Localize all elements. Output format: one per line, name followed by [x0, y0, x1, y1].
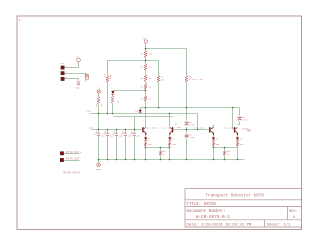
- resistor R4: [144, 84, 147, 90]
- wire pad2-2: [64, 160, 80, 162]
- svg-text:.1uF: .1uF: [189, 136, 195, 139]
- wire vcc2 stem: [78, 62, 80, 68]
- wire jog to Q4 collector: [238, 124, 240, 126]
- wire B horizontal: [90, 113, 198, 115]
- wire Q1 diode-R stub: [145, 141, 147, 142]
- wire B corner down to Q3 base: [197, 114, 199, 130]
- junction at (125.3,159.4): [125, 159, 127, 161]
- junction at (232.8,107.0): [232, 107, 234, 109]
- resistor R3: [144, 75, 147, 82]
- wire gnd symbol stem: [98, 160, 100, 163]
- wire below C9: [239, 122, 241, 125]
- resistor R5: [144, 96, 147, 102]
- junction at (116.4,129.8): [116, 129, 118, 131]
- resistor R1: [144, 51, 147, 58]
- wire C horizontal: [114, 116, 173, 118]
- wire Q3 emitter stub: [213, 136, 215, 138]
- wire vertical x=232.8: [232, 108, 234, 130]
- wire base bus: [92, 129, 143, 131]
- resistor R2: [144, 64, 147, 71]
- junction at (186.7,159.4): [186, 159, 188, 161]
- junction at (160.2,159.4): [160, 159, 162, 161]
- wire pad1-2: [65, 73, 87, 75]
- wire dropper x=224.8 bottom: [224, 156, 226, 160]
- wire cap bank drop 3 top: [116, 130, 118, 134]
- junction at (98.6,129.8): [98, 129, 100, 131]
- junction at (112.9,113.4): [112, 113, 114, 115]
- wire x=107.4 lower: [107, 83, 109, 114]
- junction at (107.4,113.4): [107, 113, 109, 115]
- svg-text:Sheet: 1/1: Sheet: 1/1: [267, 223, 292, 228]
- svg-text:OUT: OUT: [247, 130, 252, 133]
- wire Q3 collector stub: [213, 125, 215, 128]
- wire bias tap y=60.3: [108, 60, 159, 62]
- junction at (186.7,129.8): [186, 129, 188, 131]
- wire chain stub 4: [145, 82, 147, 84]
- resistor R9: [97, 97, 100, 105]
- supply symbol P+ top of divider: [144, 40, 147, 43]
- wire box stub: [86, 74, 88, 75]
- svg-text:Date: 2/28/2016 10:29:22 PM: Date: 2/28/2016 10:29:22 PM: [187, 223, 252, 228]
- wire cap bank drop 5 bottom: [134, 136, 136, 160]
- svg-text:W-EB-G079-B-1: W-EB-G079-B-1: [196, 216, 230, 220]
- junction at (116.4,159.4): [116, 159, 118, 161]
- wire cap bank drop 2 top: [107, 130, 109, 134]
- wire gnd2 stem: [78, 79, 80, 81]
- wire vertical x=186.7 lower: [186, 139, 188, 160]
- diode D4 emitter of Q2: [168, 137, 171, 140]
- wire chain to Q1 collector: [145, 102, 147, 128]
- svg-text:VCC: VCC: [143, 37, 148, 40]
- wire x=112.9 stub: [112, 91, 114, 92]
- pad JP1 pin 3: [61, 77, 64, 80]
- svg-text:TITLE: G079X: TITLE: G079X: [187, 203, 217, 207]
- wire cap bank drop 4 bottom: [125, 136, 127, 160]
- capacitor C2: [97, 133, 100, 135]
- svg-text:Q2 2N3904: Q2 2N3904: [163, 126, 175, 129]
- wire chain stub 3: [145, 71, 147, 75]
- svg-text:RCVR_OUT-: RCVR_OUT-: [66, 158, 82, 161]
- input source symbol: [97, 90, 101, 94]
- wire x=107.4 upper: [107, 61, 109, 76]
- resistor R6: [106, 76, 109, 83]
- wire gnd bus: [99, 159, 245, 161]
- svg-text:BIAS: BIAS: [86, 110, 92, 113]
- wire Q3 emitter to rail: [213, 147, 215, 148]
- supply symbol P+ at input connector: [77, 58, 81, 62]
- svg-text:10K: 10K: [148, 53, 153, 56]
- junction at (145.7,159.4): [145, 159, 147, 161]
- ground symbol (pads): [77, 81, 80, 85]
- resistor R8: [185, 76, 188, 83]
- svg-text:10u: 10u: [137, 134, 140, 137]
- svg-text:220K: 220K: [109, 73, 112, 79]
- resistor R11 emitter of Q1: [144, 142, 146, 147]
- junction at (145.7,147.9): [145, 147, 147, 149]
- wire cap bank drop 5 from C: [134, 117, 136, 134]
- junction at (107.5,129.8): [107, 129, 109, 131]
- wire pad2-1: [64, 153, 80, 155]
- junction at (98.6,113.4): [98, 113, 100, 115]
- wire dropper x=160.2 bottom: [160, 156, 162, 160]
- junction at (169.9,159.4): [169, 159, 171, 161]
- wire x=112.9 mid: [112, 95, 114, 96]
- wire Q1 chain to gnd: [145, 148, 147, 160]
- svg-text:C2: C2: [94, 132, 96, 135]
- transistor Q2: [172, 127, 173, 132]
- wire cap bank drop 2 bottom: [107, 136, 109, 160]
- junction at (145.7,90.0): [145, 90, 147, 92]
- svg-text:.1uF: .1uF: [242, 119, 248, 122]
- svg-text:JP1: JP1: [60, 62, 65, 65]
- wire Q2-Q3 base: [174, 129, 210, 131]
- capacitor C3: [106, 133, 109, 135]
- wire Q4 chain to gnd: [237, 148, 239, 160]
- wire E1: [146, 147, 170, 149]
- wire Q2 diode-R stub: [169, 141, 171, 142]
- resistor R10: [111, 96, 114, 104]
- svg-text:REV:: REV:: [289, 210, 298, 214]
- junction at (237.4,159.4): [237, 159, 239, 161]
- junction at (158.5,107.0): [158, 107, 160, 109]
- wire Q4 emitter stub: [237, 136, 239, 138]
- junction at (134.2,129.8): [134, 129, 136, 131]
- wire chain stub 2: [145, 58, 147, 64]
- junction at (213.4,159.4): [213, 159, 215, 161]
- wire pad1-3: [65, 78, 79, 80]
- resistor R12 emitter of Q2: [168, 142, 170, 147]
- wire dropper x=160.2 top: [160, 148, 162, 151]
- svg-text:RCVR XDCR: RCVR XDCR: [64, 172, 80, 175]
- resistor R16: [223, 151, 225, 156]
- capacitor C7: [185, 123, 189, 125]
- wire x=158.5 lower: [158, 83, 160, 108]
- junction at (169.9,147.9): [169, 147, 171, 149]
- wire Q2 emitter to rail: [169, 147, 171, 148]
- junction at (186.7,107.0): [186, 107, 188, 109]
- frame border: [17, 16, 302, 230]
- junction at (224.8,147.9): [224, 147, 226, 149]
- wire Q4 diode-R stub: [237, 141, 239, 142]
- junction at (107.5,159.4): [107, 159, 109, 161]
- diode D6 emitter of Q4: [236, 137, 239, 140]
- title block: [185, 189, 302, 228]
- svg-text:2: 2: [66, 72, 67, 74]
- wire x=98.6 to base bus: [98, 105, 100, 134]
- junction at (98.6,159.4): [98, 159, 100, 161]
- wire E2: [214, 147, 238, 149]
- wire A right corner down: [239, 108, 241, 116]
- transistor Q4: [234, 127, 235, 132]
- capacitor C6: [133, 133, 136, 135]
- junction at (125.3,129.8): [125, 129, 127, 131]
- earth/ground ring symbol: [97, 163, 101, 167]
- wire Q2 collector: [169, 114, 171, 128]
- resistor R15: [159, 151, 161, 156]
- wire vertical x=186.7 below R: [186, 83, 188, 121]
- wire dropper x=224.8 top: [224, 148, 226, 151]
- pad JP1 pin 2: [61, 72, 64, 75]
- resistor R13 emitter of Q3: [212, 142, 214, 147]
- wire Q1 emitter stub: [145, 136, 147, 138]
- svg-text:GND1: GND1: [96, 168, 102, 171]
- wire top rail corner: [146, 48, 187, 50]
- wire Q4 emitter to rail: [237, 147, 239, 148]
- wire vertical x=186.7 between caps: [186, 127, 188, 134]
- svg-text:RCVR_OUT+: RCVR_OUT+: [66, 151, 82, 154]
- junction at (145.7,48.5): [145, 48, 147, 50]
- capacitor C8: [185, 135, 189, 137]
- wire cap bank drop 3 bottom: [116, 136, 118, 160]
- pad OUT pin 2: [60, 158, 63, 161]
- test point TP1: [85, 75, 88, 80]
- diode D3 emitter of Q1: [144, 137, 147, 140]
- wire Q2 chain to gnd: [169, 148, 171, 160]
- transistor Q3: [209, 127, 210, 132]
- capacitor C4: [115, 133, 118, 135]
- svg-text:1: 1: [66, 66, 67, 68]
- junction at (145.7,60.3): [145, 60, 147, 62]
- svg-text:Q1 2N3904: Q1 2N3904: [147, 126, 159, 129]
- svg-text:0.1uF 25V: 0.1uF 25V: [189, 78, 204, 81]
- svg-text:VCC: VCC: [76, 55, 81, 58]
- wire D1 stub top: [140, 108, 142, 110]
- diode D5 emitter of Q3: [212, 137, 215, 140]
- wire x=98.6 to gnd bus: [98, 136, 100, 160]
- svg-text:3: 3: [66, 77, 67, 79]
- wire Q2 emitter stub: [169, 136, 171, 138]
- transistor Q1: [142, 127, 143, 132]
- wire chain stub 5: [145, 90, 147, 96]
- svg-text:Document Number:: Document Number:: [187, 209, 226, 214]
- junction at (169.9,113.4): [169, 113, 171, 115]
- wire Q3 diode-R stub: [213, 141, 215, 142]
- svg-text:Q4 2N3904: Q4 2N3904: [225, 126, 237, 129]
- resistor R7: [157, 76, 160, 83]
- wire mic stub: [98, 94, 100, 97]
- diode D2: [111, 91, 114, 94]
- capacitor C9: [238, 118, 242, 120]
- wire pad1-1: [65, 67, 79, 69]
- junction at (134.2,159.4): [134, 159, 136, 161]
- junction at (213.4,147.9): [213, 147, 215, 149]
- svg-text:Transport Detector G079: Transport Detector G079: [206, 195, 265, 199]
- diode D1: [139, 110, 142, 113]
- wire Q1 emitter to rail: [145, 147, 147, 148]
- wire chain stub top: [145, 44, 147, 51]
- wire Q3 chain to gnd: [213, 148, 215, 160]
- svg-text:Q3 2N3904: Q3 2N3904: [193, 126, 205, 129]
- wire D1 stub bottom: [140, 113, 142, 114]
- wire A horizontal: [141, 107, 240, 109]
- wire x=112.9 lower: [112, 104, 114, 114]
- junction at (145.7,107.0): [145, 107, 147, 109]
- wire cap bank drop 4 top: [125, 130, 127, 134]
- pad OUT pin 1: [60, 152, 63, 155]
- junction at (160.2,147.9): [160, 147, 162, 149]
- wire x=158.5 upper: [158, 61, 160, 76]
- resistor R14 emitter of Q4: [236, 142, 238, 147]
- wire vertical x=186.7 upper: [186, 49, 188, 76]
- junction at (197.5,129.8): [197, 129, 199, 131]
- wire tap y=90: [113, 90, 146, 92]
- pad JP1 pin 1: [61, 66, 64, 69]
- junction at (224.8,159.4): [224, 159, 226, 161]
- capacitor C5: [124, 133, 127, 135]
